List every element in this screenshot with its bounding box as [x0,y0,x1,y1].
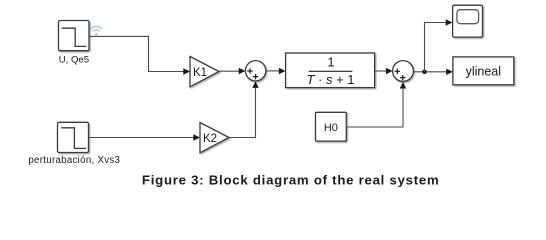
sum junction S1 [245,61,265,81]
transfer fcn block 1/(T*s+1) [286,53,375,88]
step source block perturabacion [58,122,89,152]
step icon inside U,Qe5 [62,28,86,46]
scope block [453,5,483,37]
wire transfer fcn to sum2 [375,70,386,72]
wire step2 to K2 [89,137,194,139]
svg-text:ylineal: ylineal [466,65,501,79]
gain K1 [190,57,219,87]
branch wire dot to scope [425,23,447,72]
plus sign (left input of S1) [247,68,252,73]
H0 block [316,112,347,141]
fraction bar [309,70,353,72]
plus sign (left input of S2) [395,69,400,74]
wire K2 to sum1 bottom [229,88,256,138]
svg-text:T · s + 1: T · s + 1 [306,72,354,87]
plus sign (bottom input of S2) [400,75,405,80]
wire sum1 to transfer fcn [266,70,279,72]
svg-text:K2: K2 [203,133,217,145]
wire H0 to sum2 bottom [347,88,404,127]
svg-text:perturabación, Xvs3: perturabación, Xvs3 [28,155,120,166]
svg-text:H0: H0 [324,122,338,134]
svg-text:U, Qe5: U, Qe5 [59,55,89,66]
wire sum2 to ylineal [413,71,446,73]
wire K1 to sum1 [219,70,239,72]
junction node dot [422,70,427,75]
ylineal block [453,57,514,85]
svg-text:Figure 3: Block diagram of the: Figure 3: Block diagram of the real syst… [142,173,440,188]
scope screen [457,10,479,24]
wifi logging badge [91,26,101,35]
plus sign (bottom input of S1) [253,74,258,79]
step source block U,Qe5 [59,21,90,51]
svg-text:K1: K1 [193,67,207,79]
sum junction S2 [393,61,414,82]
step icon inside perturabacion [61,128,86,149]
wire step1 to K1 [89,36,183,71]
gain K2 [200,123,229,153]
svg-text:1: 1 [327,55,334,70]
